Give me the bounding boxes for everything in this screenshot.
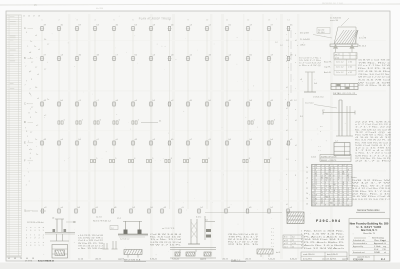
grid line 2 <box>58 29 60 209</box>
svg-text:1-2: 1-2 <box>321 200 323 202</box>
svg-text:22: 22 <box>329 180 331 182</box>
svg-text:x: x <box>295 62 296 64</box>
svg-text:t4: t4 <box>295 144 297 147</box>
svg-text:6x6: 6x6 <box>314 83 317 85</box>
svg-text:58: 58 <box>321 194 323 196</box>
svg-text:2b: 2b <box>306 193 308 195</box>
svg-text:Base PL: Base PL <box>324 62 332 64</box>
grid line 13 <box>268 29 270 209</box>
svg-text:28: 28 <box>38 16 40 18</box>
svg-text:no 4 et: no 4 et <box>96 216 102 219</box>
svg-text:7: 7 <box>25 127 26 129</box>
scale box <box>301 252 347 261</box>
svg-text:58: 58 <box>338 192 340 194</box>
svg-text:x: x <box>295 109 296 111</box>
svg-text:58: 58 <box>32 258 34 260</box>
notes column top right <box>358 60 392 88</box>
svg-text:7-21-41: 7-21-41 <box>268 258 276 260</box>
svg-text:SCHED OF COLS: SCHED OF COLS <box>321 156 337 158</box>
svg-text:x No. 15 5/8 Col: x No. 15 5/8 Col <box>78 248 104 250</box>
svg-text:36: 36 <box>329 167 331 169</box>
svg-text:1-2: 1-2 <box>325 180 327 182</box>
svg-text:7/8 No. Riv x: 7/8 No. Riv x <box>358 62 390 64</box>
svg-text:1-2: 1-2 <box>347 205 349 207</box>
svg-text:8: 8 <box>306 183 307 185</box>
svg-text:22: 22 <box>329 198 331 200</box>
svg-text:2: 2 <box>270 158 271 160</box>
svg-text:22: 22 <box>343 194 345 196</box>
svg-text:8: 8 <box>295 55 296 57</box>
svg-text:36: 36 <box>347 194 349 196</box>
svg-text:U. S. NAVY YARD: U. S. NAVY YARD <box>357 226 382 229</box>
column row F symbols <box>90 158 271 163</box>
grid line 1 <box>41 29 43 209</box>
svg-text:3-6 4 12 Col Riv 7/8 3-6: 3-6 4 12 Col Riv 7/8 3-6 <box>352 188 390 190</box>
svg-text:W10: W10 <box>325 178 328 180</box>
schedule row labels <box>306 167 308 205</box>
svg-text:W 12 1'-7 W: W 12 1'-7 W <box>352 183 391 185</box>
svg-text:15: 15 <box>312 194 314 196</box>
svg-text:chk 22: chk 22 <box>222 258 229 260</box>
svg-text:F290-994: F290-994 <box>353 258 364 261</box>
svg-text:3-0: 3-0 <box>292 237 295 239</box>
svg-text:5: 5 <box>64 120 65 122</box>
svg-text:58: 58 <box>315 194 317 196</box>
svg-text:9: 9 <box>189 158 190 160</box>
svg-text:36: 36 <box>343 198 345 200</box>
svg-text:22 1'-7 x Riv: 22 1'-7 x Riv <box>355 161 391 163</box>
svg-text:1-2: 1-2 <box>315 203 317 205</box>
svg-text:1-6 x 1-2: 1-6 x 1-2 <box>336 62 343 64</box>
svg-text:5: 5 <box>26 230 27 232</box>
column row E symbols <box>40 139 293 145</box>
svg-text:t4: t4 <box>295 39 297 42</box>
svg-text:58: 58 <box>338 174 340 176</box>
small parts table <box>283 235 303 248</box>
svg-text:19: 19 <box>20 258 22 260</box>
revision strip entries <box>10 17 16 90</box>
svg-text:19: 19 <box>312 203 314 205</box>
sheet top edge <box>0 4 400 5</box>
svg-text:ch. by H.B.: ch. by H.B. <box>327 259 337 261</box>
svg-text:1-2: 1-2 <box>315 188 317 190</box>
svg-text:chk 22: chk 22 <box>95 258 102 260</box>
hatched stack detail <box>287 212 304 224</box>
svg-text:1: 1 <box>30 109 31 111</box>
svg-text:22: 22 <box>292 246 294 248</box>
svg-text:27 37 91: 27 37 91 <box>25 260 32 262</box>
svg-text:1-6 x 1-2: 1-6 x 1-2 <box>336 72 343 74</box>
svg-text:8: 8 <box>286 61 287 63</box>
svg-text:+ x: + x <box>271 235 274 237</box>
svg-text:x x: x x <box>320 126 322 128</box>
svg-text:4: 4 <box>34 230 35 232</box>
svg-text:appd 4: appd 4 <box>200 258 207 260</box>
svg-text:6: 6 <box>301 245 302 247</box>
svg-text:2b: 2b <box>306 167 308 169</box>
svg-text:dr. by W.S.: dr. by W.S. <box>303 258 313 261</box>
grid line 11 <box>226 29 228 209</box>
grid line numbers <box>41 20 290 22</box>
svg-text:2-6x2: 2-6x2 <box>311 157 317 159</box>
svg-text:3: 3 <box>301 236 302 238</box>
svg-text:6-30-41: 6-30-41 <box>150 258 158 260</box>
crane column detail <box>300 97 355 137</box>
field annotations left <box>29 35 50 156</box>
column row B symbols <box>40 55 293 61</box>
svg-text:pl 14: pl 14 <box>335 57 339 59</box>
svg-text:W10: W10 <box>325 196 328 198</box>
svg-text:11: 11 <box>312 186 314 188</box>
svg-text:7/8 No. 3-6 Col 22 No.: 7/8 No. 3-6 Col 22 No. <box>358 74 391 76</box>
svg-text:22 15 PL 15: 22 15 PL 15 <box>228 244 260 246</box>
svg-text:36: 36 <box>334 205 336 207</box>
svg-text:no 14: no 14 <box>78 258 84 260</box>
column row D symbols <box>58 120 275 125</box>
svg-text:x: x <box>297 45 298 47</box>
svg-text:6: 6 <box>30 230 31 232</box>
svg-text:8: 8 <box>30 245 31 247</box>
svg-text:3: 3 <box>208 158 209 160</box>
filled detail table <box>331 84 358 90</box>
svg-text:22 4 B 3-6 Riv: 22 4 B 3-6 Riv <box>358 71 390 73</box>
top margin smudges <box>34 3 344 10</box>
grid line 10 <box>206 29 208 209</box>
svg-text:7/8 Riv 15 1'-7 3-6: 7/8 Riv 15 1'-7 3-6 <box>352 191 390 193</box>
svg-text:3-6 3-6 22 15 3-6 7/8 1'-7: 3-6 3-6 22 15 3-6 7/8 1'-7 <box>352 199 390 201</box>
svg-text:2b: 2b <box>306 198 308 200</box>
svg-text:E: E <box>24 141 26 145</box>
svg-text:22: 22 <box>329 192 331 194</box>
svg-text:2b: 2b <box>306 203 308 205</box>
svg-text:date 6-30-41: date 6-30-41 <box>327 253 338 256</box>
svg-text:B4: B4 <box>315 198 317 200</box>
svg-text:12: 12 <box>338 190 340 192</box>
svg-text:a b: a b <box>322 110 325 112</box>
svg-text:15 B W x Col 7/8 @: 15 B W x Col 7/8 @ <box>358 60 390 62</box>
svg-text:8: 8 <box>30 57 31 59</box>
svg-text:c4: c4 <box>306 177 308 179</box>
svg-text:7: 7 <box>25 66 26 68</box>
svg-text:Notes: Notes <box>351 176 358 179</box>
svg-text:W10: W10 <box>329 203 332 205</box>
svg-text:1: 1 <box>27 46 28 48</box>
note list bottom right-center <box>228 234 260 246</box>
svg-text:2: 2 <box>28 141 29 143</box>
svg-text:x 1/2: x 1/2 <box>348 72 352 74</box>
svg-text:8: 8 <box>30 158 31 160</box>
svg-text:58: 58 <box>338 200 340 202</box>
svg-text:DETAIL OF COL 22: DETAIL OF COL 22 <box>333 92 356 95</box>
svg-text:8: 8 <box>286 144 287 146</box>
roof bracket detail (hatched) <box>330 27 358 53</box>
svg-text:G: G <box>24 209 26 213</box>
svg-text:58: 58 <box>321 198 323 200</box>
svg-text:max horiz: max horiz <box>305 103 314 105</box>
svg-text:5: 5 <box>26 245 27 247</box>
svg-text:7-21-41: 7-21-41 <box>172 258 180 260</box>
svg-text:(1): (1) <box>52 218 55 220</box>
svg-text:2L 4x3x3/8: 2L 4x3x3/8 <box>300 39 311 41</box>
title block heading <box>350 222 389 240</box>
column base detail 2 lower <box>103 241 143 258</box>
svg-text:16: 16 <box>312 196 314 198</box>
svg-text:7: 7 <box>30 89 31 91</box>
svg-text:3-6 W Riv Col 4: 3-6 W Riv Col 4 <box>352 196 393 198</box>
svg-text:1/2 11/16 x 3/4 det: 1/2 11/16 x 3/4 det <box>27 221 44 224</box>
svg-text:14: 14 <box>315 167 317 169</box>
svg-text:Anch No. 1-6 x Bolts: Anch No. 1-6 x Bolts <box>304 244 344 247</box>
svg-text:1-2: 1-2 <box>329 178 331 180</box>
svg-text:4-6: 4-6 <box>205 220 208 222</box>
svg-text:58: 58 <box>321 192 323 194</box>
svg-text:58: 58 <box>343 171 345 173</box>
svg-text:22: 22 <box>343 200 345 202</box>
grid line 3 <box>76 29 78 209</box>
svg-text:3: 3 <box>34 245 35 247</box>
svg-text:PLAN AT ROOF TRUSS: PLAN AT ROOF TRUSS <box>139 18 172 21</box>
svg-text:1-2: 1-2 <box>275 42 278 44</box>
svg-text:3/4 3/4 Det 3/4 1-6: 3/4 3/4 Det 3/4 1-6 <box>304 238 344 241</box>
bracket rivet table <box>334 53 357 60</box>
svg-text:14: 14 <box>347 188 349 190</box>
svg-text:BASES + RIVETS: BASES + RIVETS <box>321 159 337 162</box>
svg-text:det 8: det 8 <box>276 251 280 254</box>
svg-text:t4: t4 <box>286 129 288 132</box>
svg-text:14: 14 <box>315 171 317 173</box>
note list bottom middle <box>150 234 183 246</box>
svg-text:2: 2 <box>82 120 83 122</box>
svg-text:22: 22 <box>315 180 317 182</box>
svg-text:7: 7 <box>26 81 27 83</box>
reference list left of title block <box>301 230 345 250</box>
svg-text:1-2: 1-2 <box>343 165 345 167</box>
svg-text:B4: B4 <box>321 178 323 180</box>
grid line 5 <box>113 29 115 209</box>
svg-text:B4: B4 <box>329 186 331 188</box>
svg-text:1-2: 1-2 <box>286 159 289 161</box>
svg-text:b 22 x: b 22 x <box>196 217 201 219</box>
svg-text:6-30-41: 6-30-41 <box>290 258 298 260</box>
title block bottom cells <box>349 255 390 261</box>
svg-text:22: 22 <box>306 188 308 190</box>
svg-text:22: 22 <box>329 171 331 173</box>
grid line 8 <box>169 29 171 209</box>
svg-text:2: 2 <box>34 238 35 240</box>
svg-text:58: 58 <box>321 203 323 205</box>
svg-text:c8: c8 <box>300 79 302 81</box>
svg-text:B4: B4 <box>315 174 317 176</box>
svg-text:sect 2: sect 2 <box>322 257 328 260</box>
svg-text:5: 5 <box>39 245 40 247</box>
svg-text:22 x x 1'-7 No. 12 W: 22 x x 1'-7 No. 12 W <box>358 65 390 67</box>
svg-text:14: 14 <box>343 205 345 207</box>
svg-text:brkt pl 3/8: brkt pl 3/8 <box>300 32 310 35</box>
svg-text:no 22: no 22 <box>335 54 340 56</box>
svg-text:14: 14 <box>312 192 314 194</box>
svg-text:36: 36 <box>343 182 345 184</box>
svg-text:x: x <box>286 55 287 57</box>
bearing box detail <box>318 141 350 156</box>
svg-text:17: 17 <box>312 198 314 200</box>
svg-text:t4: t4 <box>295 119 297 122</box>
grid line 4 <box>94 29 96 209</box>
svg-text:No. Det x 3/4 No.: No. Det x 3/4 No. <box>304 230 345 233</box>
svg-text:49: 49 <box>8 258 10 260</box>
svg-text:1-2: 1-2 <box>329 174 331 176</box>
svg-text:36: 36 <box>334 190 336 192</box>
svg-text:5/8 12 Riv W: 5/8 12 Riv W <box>352 180 391 182</box>
svg-text:36: 36 <box>334 198 336 200</box>
svg-text:8: 8 <box>26 131 27 133</box>
svg-text:file 994: file 994 <box>96 8 104 10</box>
match line right of grid <box>275 30 303 210</box>
svg-text:26: 26 <box>28 16 30 18</box>
bottom tie line <box>205 212 282 214</box>
svg-text:4 riv 7/8: 4 riv 7/8 <box>359 38 367 40</box>
svg-text:x 1/2: x 1/2 <box>348 62 352 64</box>
svg-text:12: 12 <box>334 192 336 194</box>
svg-text:5: 5 <box>152 158 153 160</box>
svg-text:t4: t4 <box>286 86 288 89</box>
note list bottom left <box>78 235 104 250</box>
svg-text:12: 12 <box>347 192 349 194</box>
svg-text:14: 14 <box>321 176 323 178</box>
svg-text:12: 12 <box>347 190 349 192</box>
svg-text:el 28-6 22-0: el 28-6 22-0 <box>313 97 325 99</box>
svg-text:7: 7 <box>30 238 31 240</box>
svg-text:B4: B4 <box>334 184 336 186</box>
svg-text:1: 1 <box>27 136 28 138</box>
svg-text:4: 4 <box>30 153 31 155</box>
svg-text:pl 12: pl 12 <box>284 243 288 245</box>
title block frame <box>349 219 390 262</box>
svg-text:A: A <box>24 26 26 30</box>
title block signature rows <box>352 239 389 254</box>
svg-text:58: 58 <box>347 198 349 200</box>
svg-text:no 2 3 4 7 9 11: no 2 3 4 7 9 11 <box>162 228 174 230</box>
svg-text:x Riv x 4 W @: x Riv x 4 W @ <box>299 65 321 67</box>
svg-text:58: 58 <box>315 176 317 178</box>
svg-text:PL PL Anch Bolts PL: PL PL Anch Bolts PL <box>304 241 344 244</box>
svg-text:12: 12 <box>325 186 327 188</box>
svg-text:8: 8 <box>26 238 27 240</box>
svg-text:18: 18 <box>312 200 314 202</box>
bracket detail leaders and labels <box>300 18 367 48</box>
svg-text:C: C <box>24 102 26 106</box>
svg-text:1-2: 1-2 <box>347 174 349 176</box>
note block small left <box>299 58 321 68</box>
svg-text:22: 22 <box>292 240 294 242</box>
svg-text:5: 5 <box>254 120 255 122</box>
svg-text:7: 7 <box>28 172 29 174</box>
bottom edge marks <box>7 257 350 260</box>
svg-text:25: 25 <box>23 16 25 18</box>
svg-text:1-2: 1-2 <box>280 45 283 47</box>
svg-text:x: x <box>320 131 321 133</box>
svg-text:8: 8 <box>171 158 172 160</box>
svg-text:E-1: E-1 <box>381 257 386 261</box>
svg-text:1-6 x 1-2: 1-6 x 1-2 <box>336 67 343 69</box>
svg-text:5: 5 <box>301 242 302 244</box>
row letter labels left margin <box>24 26 33 213</box>
svg-text:t4: t4 <box>286 203 288 206</box>
svg-text:PL Anch x Anch 12: PL Anch x Anch 12 <box>304 235 344 238</box>
svg-text:EL 46-0: EL 46-0 <box>318 32 325 34</box>
svg-text:1-2: 1-2 <box>334 188 336 190</box>
svg-text:4: 4 <box>274 120 275 122</box>
svg-text:6: 6 <box>100 120 101 122</box>
rail girder detail <box>170 248 216 259</box>
small column elevation detail <box>300 72 317 92</box>
anchor detail bottom <box>257 249 280 257</box>
svg-text:Anch B.: Anch B. <box>324 71 331 74</box>
svg-text:W10: W10 <box>325 174 328 176</box>
svg-text:12: 12 <box>343 188 345 190</box>
svg-text:58: 58 <box>329 188 331 190</box>
svg-text:14: 14 <box>338 176 340 178</box>
svg-text:EL 40-6: EL 40-6 <box>359 46 367 48</box>
svg-text:x: x <box>286 174 287 176</box>
svg-text:4: 4 <box>301 239 302 241</box>
svg-text:x: x <box>295 160 296 162</box>
schedule header block <box>311 155 351 163</box>
svg-text:12: 12 <box>315 184 317 186</box>
svg-text:36: 36 <box>338 178 340 180</box>
svg-text:12: 12 <box>325 190 327 192</box>
svg-text:Cap PL: Cap PL <box>324 67 332 69</box>
svg-text:2L 3x3x5/16: 2L 3x3x5/16 <box>330 18 342 20</box>
svg-text:5: 5 <box>43 245 44 247</box>
svg-text:7: 7 <box>24 176 25 178</box>
svg-text:58: 58 <box>343 184 345 186</box>
svg-text:14: 14 <box>338 198 340 200</box>
svg-text:44: 44 <box>26 258 28 260</box>
svg-text:36: 36 <box>329 176 331 178</box>
braced column detail <box>188 216 215 244</box>
svg-text:3: 3 <box>39 230 40 232</box>
svg-text:chk 22: chk 22 <box>245 258 252 260</box>
svg-text:14: 14 <box>343 192 345 194</box>
base and cap schedule rows <box>324 53 356 76</box>
svg-text:1: 1 <box>301 231 302 233</box>
svg-text:General Notes Elev.: General Notes Elev. <box>357 208 380 212</box>
revision strip table <box>7 15 22 256</box>
svg-text:rivets 3/4: rivets 3/4 <box>330 19 339 22</box>
svg-text:B4: B4 <box>347 176 349 178</box>
svg-text:appd 4: appd 4 <box>118 258 125 260</box>
svg-text:B4: B4 <box>329 169 331 171</box>
svg-text:W W 1'-7 15 PL: W W 1'-7 15 PL <box>150 244 183 246</box>
column base detail 2 <box>93 220 148 241</box>
svg-text:top chd: top chd <box>318 28 324 31</box>
svg-text:7: 7 <box>29 163 30 165</box>
svg-text:12: 12 <box>315 182 317 184</box>
svg-text:2: 2 <box>26 184 27 186</box>
svg-text:appd 4: appd 4 <box>342 258 349 260</box>
svg-text:27: 27 <box>33 16 35 18</box>
svg-text:stiff pl: stiff pl <box>300 44 306 47</box>
svg-text:4: 4 <box>134 158 135 160</box>
svg-text:68: 68 <box>14 258 16 260</box>
svg-text:Riv 12 PL 3-6: Riv 12 PL 3-6 <box>358 68 390 70</box>
svg-text:3-6 3-6 7/8 Col: 3-6 3-6 7/8 Col <box>358 80 391 82</box>
svg-text:58: 58 <box>347 169 349 171</box>
svg-text:12: 12 <box>321 188 323 190</box>
svg-text:x: x <box>295 33 296 35</box>
svg-text:10: 10 <box>312 184 314 186</box>
svg-text:8 riv: 8 riv <box>284 237 287 239</box>
